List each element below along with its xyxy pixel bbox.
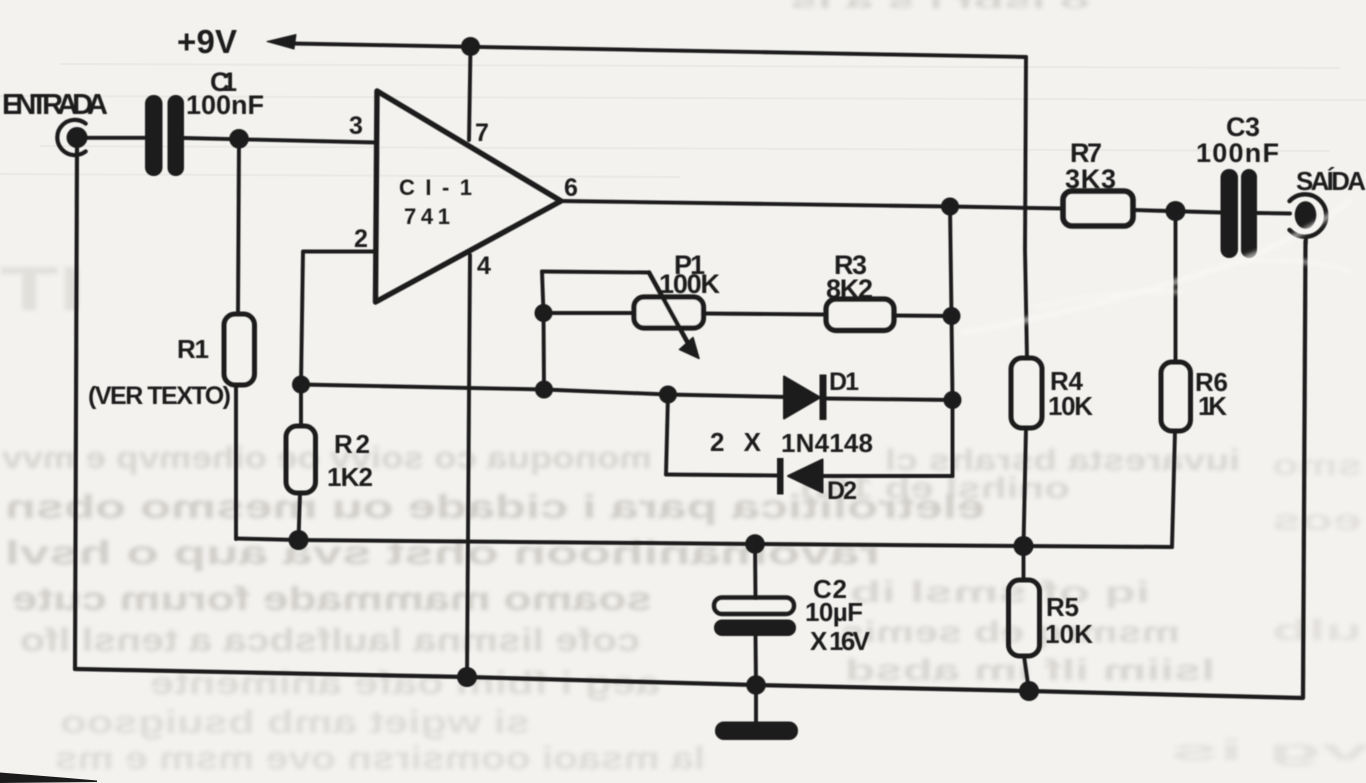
node junction after C1 [229, 129, 249, 149]
svg-text:R2: R2 [334, 429, 370, 459]
svg-text:1N4148: 1N4148 [781, 428, 873, 458]
svg-text:cofe lismna laulfsbca a tensl: cofe lismna laulfsbca a tensl lfo [20, 622, 640, 658]
resistor R7 body [1063, 191, 1133, 226]
wire R2 top lead [299, 384, 303, 426]
svg-text:10K: 10K [1048, 391, 1093, 421]
svg-text:4: 4 [477, 252, 491, 280]
svg-text:6: 6 [564, 174, 578, 202]
wire pin 4 down [467, 255, 470, 677]
resistor R4 body [1011, 358, 1042, 428]
faint scanner streaks [0, 64, 1366, 177]
capacitor C3 plate right [1241, 169, 1257, 258]
wire P1 wiper top [542, 272, 649, 273]
label C2 value 10uF [805, 597, 863, 627]
svg-text:1K: 1K [1198, 391, 1227, 421]
capacitor C2 plate bottom [714, 620, 796, 637]
label R3 [834, 250, 867, 280]
node junction pin4/ground [457, 667, 477, 687]
node junction C2/ground [746, 675, 766, 695]
svg-text:8K2: 8K2 [826, 274, 873, 304]
label R1 [177, 334, 209, 364]
svg-text:10µF: 10µF [805, 597, 863, 627]
label R7 value 3K3 [1065, 164, 1116, 194]
svg-text:10K: 10K [1045, 619, 1093, 649]
pin 4 label [477, 252, 491, 280]
wire C2 top lead [753, 544, 757, 598]
node +9V label [177, 23, 237, 60]
wire C1 to pin 3 [184, 138, 376, 143]
label R3 value 8K2 [826, 274, 873, 304]
label R2 value 1K2 [327, 462, 373, 492]
svg-text:eos: eos [1272, 504, 1362, 537]
wire C2 bottom lead [754, 636, 758, 685]
op-amp CI-1 triangle [376, 91, 562, 302]
svg-text:SAÍDA: SAÍDA [1296, 166, 1366, 196]
svg-text:X 16V: X 16V [810, 626, 871, 656]
wire P1 left leg vertical [542, 272, 544, 390]
output jack J-out center pin [1295, 201, 1317, 229]
svg-text:2: 2 [354, 225, 368, 253]
svg-text:soamo mammade forum cute: soamo mammade forum cute [12, 580, 652, 617]
label R4 value 10K [1048, 391, 1093, 421]
svg-text:7: 7 [475, 119, 489, 147]
svg-text:3: 3 [349, 112, 363, 140]
svg-text:IT: IT [0, 255, 85, 324]
label P1 [674, 250, 705, 280]
wire D1 cathode to feedback [826, 399, 953, 401]
diode D2 cathode bar [777, 458, 784, 495]
arrowhead P1 wiper [680, 338, 700, 359]
wire R6 top lead [1174, 211, 1178, 362]
wire R2 bottom lead [299, 493, 301, 540]
diode D2 body [788, 460, 823, 493]
pin 7 label [475, 119, 489, 147]
label C2 [813, 574, 847, 604]
resistor R2 body [286, 426, 316, 493]
wire +9V rail drop to R4 [1025, 57, 1027, 358]
svg-text:R1: R1 [177, 334, 209, 364]
capacitor C1 plate right [168, 95, 185, 176]
wire R5 bottom lead [1024, 656, 1029, 691]
wire R1 branch from input node [238, 139, 239, 314]
wire R4 bottom lead [1024, 428, 1027, 546]
output jack J-out outer ring [1290, 194, 1327, 236]
label C1 value 100nF [186, 90, 264, 120]
svg-text:la msaoi oomsirsn ove msm e ms: la msaoi oomsirsn ove msm e ms [55, 740, 705, 776]
wire P1 to R3 [704, 314, 827, 315]
wire P1 left lead [544, 311, 634, 315]
wire input jack to C1 [84, 136, 145, 140]
resistor R5 body [1009, 580, 1040, 656]
svg-text:+9V: +9V [177, 23, 237, 60]
node junction R4/R5 bias [1014, 536, 1034, 556]
diode D1 cathode bar [820, 375, 827, 421]
resistor R3 body [826, 299, 894, 331]
node junction P1 leg bottom [535, 381, 553, 399]
capacitor C1 plate left [145, 95, 163, 176]
input jack J-in center pin [67, 127, 88, 148]
node junction R5/ground [1019, 681, 1039, 701]
ground bar [715, 722, 798, 741]
wire inverting net horizontal [301, 385, 786, 398]
label C2 value X16V [810, 626, 871, 656]
wire ground stub [754, 685, 758, 724]
wire bias mid line [236, 539, 1172, 548]
label C1 [210, 67, 237, 97]
label 2 X 1N4148 [710, 427, 873, 458]
scan artifact bottom-left wedge [0, 773, 97, 783]
label D1 [829, 368, 859, 396]
label R4 [1050, 366, 1084, 396]
wire ground bottom line [75, 241, 1306, 698]
node SAIDA label [1296, 166, 1366, 196]
wire R5 top lead [1022, 546, 1026, 580]
node junction R7/R6/C3 [1166, 201, 1186, 221]
node ENTRADA label [2, 89, 108, 121]
wire P1 wiper diagonal [649, 273, 689, 346]
node junction diode loop left [659, 386, 677, 404]
label CI-1 [399, 175, 472, 200]
svg-text:1K2: 1K2 [327, 462, 373, 492]
pin 6 label [564, 174, 578, 202]
wire R3 to feedback node [894, 314, 951, 318]
pin 3 label [349, 112, 363, 140]
wire ENTRADA down left side [75, 147, 77, 669]
label R7 [1070, 138, 1102, 168]
label 741 [404, 204, 456, 229]
capacitor C3 plate left [1221, 169, 1239, 258]
wire output jack down [1304, 238, 1308, 244]
arrowhead on +9V rail [267, 35, 296, 50]
node junction P1 left [535, 304, 553, 322]
wire feedback vertical [950, 207, 953, 477]
svg-text:o isbf i s a ls: o isbf i s a ls [790, 0, 1090, 12]
wire pin 2 stub [301, 252, 376, 385]
node junction C2 top [745, 534, 765, 554]
svg-text:smo: smo [1272, 449, 1362, 482]
svg-text:741: 741 [404, 204, 456, 229]
wire D2 row [666, 475, 953, 477]
label R2 [334, 429, 370, 459]
wire pin 6 output [561, 201, 1063, 209]
label R6 [1195, 367, 1228, 397]
svg-text:ENTRADA: ENTRADA [2, 89, 108, 121]
label R6 value 1K [1198, 391, 1227, 421]
svg-text:si wgiet amb bsuigsoo: si wgiet amb bsuigsoo [60, 704, 530, 740]
svg-text:D1: D1 [829, 368, 859, 396]
wire pin 7 to +9V [469, 47, 471, 141]
pin 2 label [354, 225, 368, 253]
wire R7 to C3 [1133, 210, 1221, 213]
wire C3 to output jack [1257, 211, 1290, 215]
node junction on +9V rail [461, 37, 480, 56]
svg-text:100nF: 100nF [186, 90, 264, 120]
label C3 value 100nF [1196, 138, 1279, 168]
svg-text:ulb: ulb [1272, 614, 1362, 647]
svg-text:100nF: 100nF [1196, 138, 1279, 168]
wire +9V rail [292, 44, 1026, 58]
label C3 [1226, 112, 1260, 142]
label P1 value 100K [659, 269, 721, 299]
node junction R2 bottom [289, 530, 309, 550]
node junction feedback top [941, 198, 959, 216]
svg-text:3K3: 3K3 [1065, 164, 1116, 194]
resistor R1 body [224, 314, 255, 385]
svg-text:(VER TEXTO): (VER TEXTO) [88, 382, 231, 410]
label R5 [1046, 592, 1079, 622]
wire R1 bottom to bias line [234, 385, 238, 539]
svg-text:iq of smsl ib: iq of smsl ib [850, 576, 1150, 609]
input jack J-in outer ring [57, 120, 85, 155]
potentiometer P1 body [634, 297, 704, 328]
wire diode loop left vertical [666, 395, 668, 475]
node junction D1 right [944, 391, 962, 409]
svg-text:R5: R5 [1046, 592, 1079, 622]
node junction pin2/R2 [292, 376, 310, 394]
svg-text:2 X: 2 X [710, 427, 762, 457]
svg-text:vg is: vg is [1170, 734, 1366, 767]
capacitor C2 plate top [714, 598, 794, 615]
svg-text:100K: 100K [659, 269, 721, 299]
wire R6 bottom lead [1172, 431, 1175, 547]
label D2 [827, 477, 857, 505]
diode D1 body [784, 377, 820, 419]
resistor R6 body [1161, 362, 1191, 431]
white scratch streak near SAIDA [962, 200, 1352, 333]
node junction R3 right [943, 307, 961, 325]
label (VER TEXTO) [88, 382, 231, 410]
label R5 value 10K [1045, 619, 1093, 649]
svg-text:D2: D2 [827, 477, 857, 505]
